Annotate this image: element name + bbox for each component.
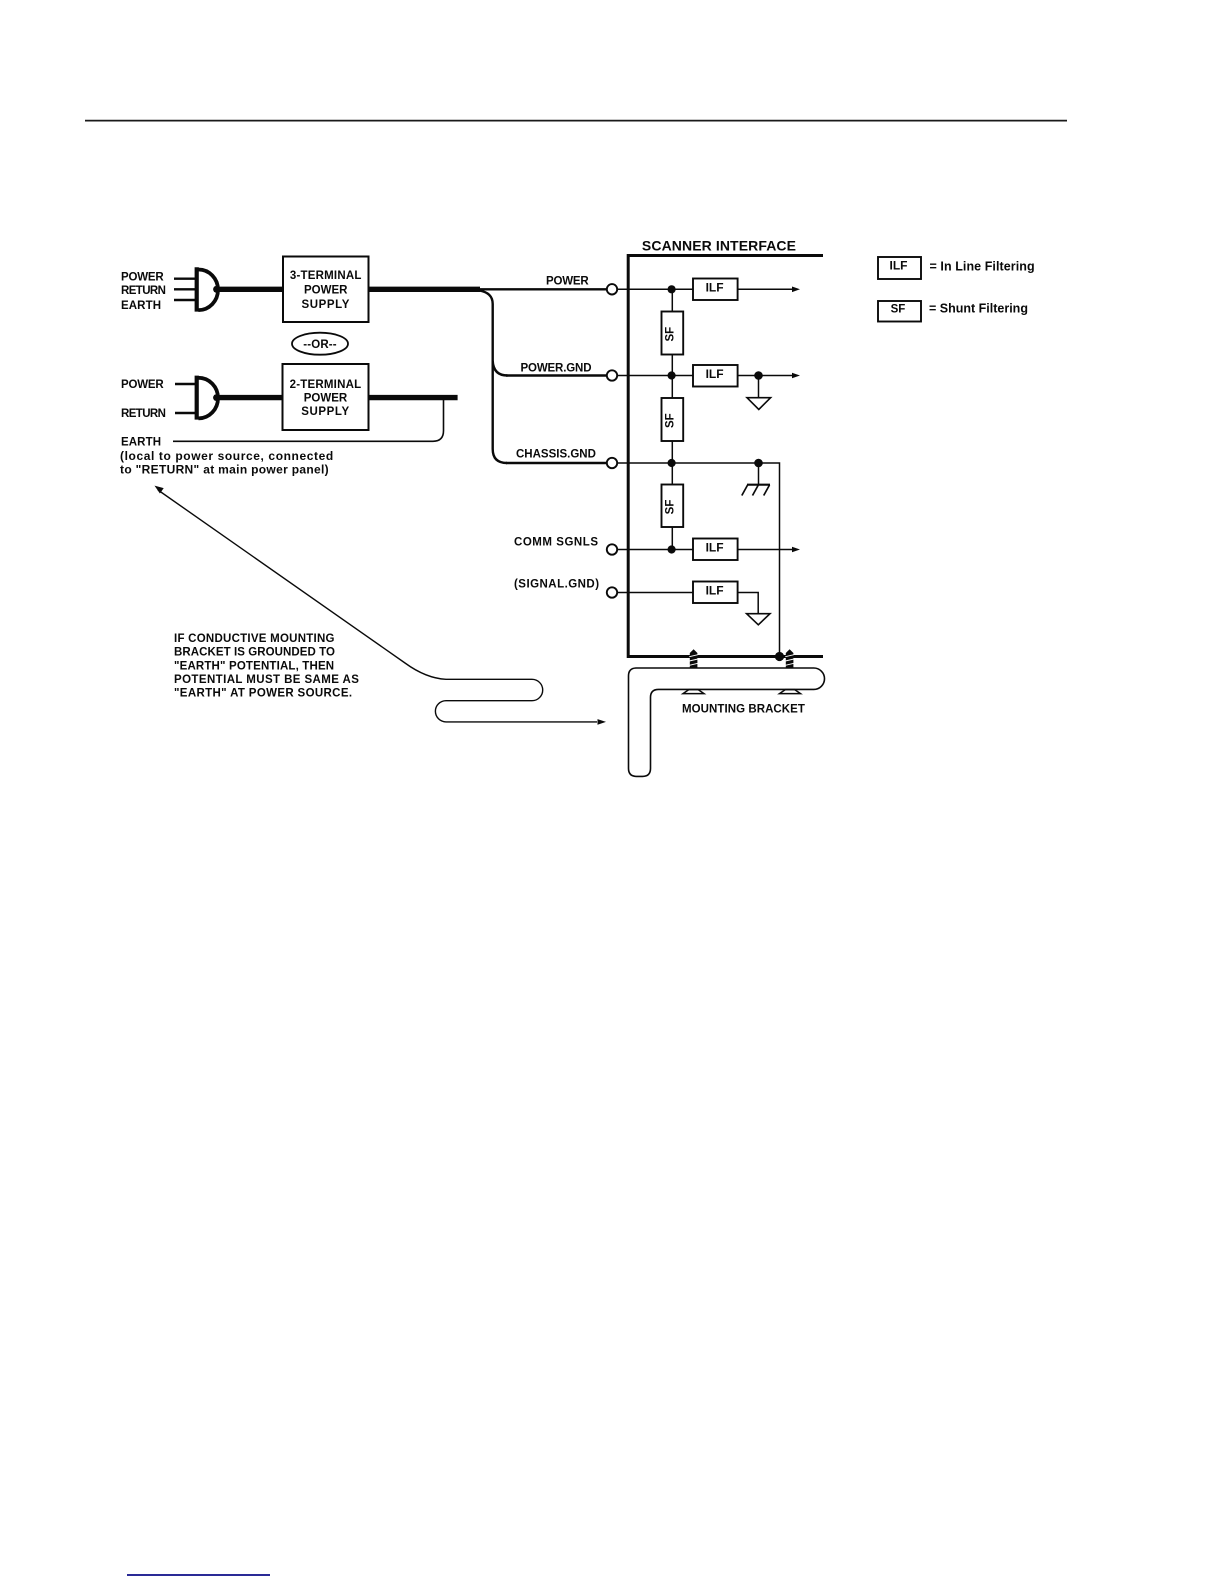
svg-text:ILF: ILF: [706, 280, 724, 294]
svg-text:(local to power source, connec: (local to power source, connected: [120, 449, 334, 463]
svg-text:(SIGNAL.GND): (SIGNAL.GND): [514, 579, 600, 591]
svg-text:3-TERMINAL: 3-TERMINAL: [290, 270, 362, 282]
svg-text:POWER: POWER: [546, 276, 589, 288]
svg-text:POWER.GND: POWER.GND: [521, 362, 592, 374]
svg-text:POWER: POWER: [121, 271, 164, 283]
svg-text:SF: SF: [665, 500, 677, 515]
svg-text:RETURN: RETURN: [121, 408, 166, 420]
svg-text:CHASSIS.GND: CHASSIS.GND: [516, 449, 596, 461]
svg-text:= Shunt Filtering: = Shunt Filtering: [929, 302, 1028, 316]
svg-text:SCANNER INTERFACE: SCANNER INTERFACE: [642, 237, 796, 253]
svg-text:POWER: POWER: [304, 393, 348, 405]
svg-text:= In Line Filtering: = In Line Filtering: [930, 259, 1035, 273]
svg-text:ILF: ILF: [706, 540, 724, 554]
svg-text:"EARTH" POTENTIAL, THEN: "EARTH" POTENTIAL, THEN: [174, 660, 334, 672]
svg-text:SF: SF: [891, 304, 906, 316]
svg-text:MOUNTING BRACKET: MOUNTING BRACKET: [682, 703, 805, 715]
svg-text:EARTH: EARTH: [121, 436, 161, 448]
svg-text:ILF: ILF: [890, 258, 908, 272]
svg-text:SF: SF: [665, 413, 677, 428]
svg-text:RETURN: RETURN: [121, 285, 166, 297]
svg-text:ILF: ILF: [706, 583, 724, 597]
svg-text:POTENTIAL MUST BE SAME AS: POTENTIAL MUST BE SAME AS: [174, 674, 359, 686]
svg-text:IF CONDUCTIVE MOUNTING: IF CONDUCTIVE MOUNTING: [174, 633, 335, 645]
svg-text:COMM SGNLS: COMM SGNLS: [514, 537, 599, 549]
svg-text:--OR--: --OR--: [303, 339, 336, 351]
svg-text:2-TERMINAL: 2-TERMINAL: [290, 379, 362, 391]
svg-text:SF: SF: [665, 327, 677, 342]
svg-text:POWER: POWER: [304, 285, 348, 297]
svg-text:BRACKET IS GROUNDED TO: BRACKET IS GROUNDED TO: [174, 647, 335, 659]
svg-text:SUPPLY: SUPPLY: [301, 299, 350, 311]
svg-text:"EARTH" AT POWER SOURCE.: "EARTH" AT POWER SOURCE.: [174, 688, 352, 700]
svg-text:to "RETURN" at main power pane: to "RETURN" at main power panel): [120, 463, 329, 477]
svg-text:SUPPLY: SUPPLY: [301, 406, 350, 418]
svg-text:EARTH: EARTH: [121, 300, 161, 312]
svg-text:ILF: ILF: [706, 367, 724, 381]
svg-text:POWER: POWER: [121, 379, 164, 391]
